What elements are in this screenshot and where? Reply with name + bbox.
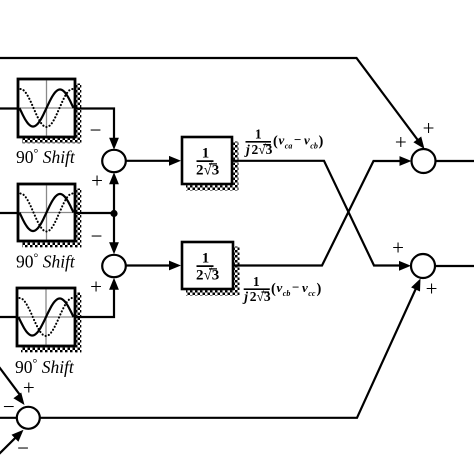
svg-text:+: +	[395, 130, 407, 154]
wire: diagonal input to S5 from upper left	[0, 366, 20, 395]
wire: top feed line into summer S3	[0, 58, 421, 145]
svg-text:): )	[317, 281, 322, 297]
formula label 1/(j2sqrt3)(vca - vcb)	[244, 127, 324, 157]
svg-text:1: 1	[202, 251, 210, 267]
gain block G1 box	[182, 137, 232, 184]
svg-text:v: v	[304, 133, 310, 148]
90-degree shift block 2 box	[18, 184, 75, 241]
svg-text:90° Shift: 90° Shift	[16, 146, 76, 167]
block 1 axes	[46, 81, 48, 136]
svg-text:ca: ca	[285, 142, 293, 151]
summer S2	[102, 255, 126, 277]
wire: S3 output	[436, 160, 474, 162]
block 3 axes	[45, 290, 47, 345]
wire: horizontal input to S5	[0, 417, 17, 419]
svg-text:2√3: 2√3	[196, 268, 219, 284]
wire: input stub to block 2	[0, 212, 19, 214]
svg-text:1: 1	[202, 146, 210, 162]
summer S3	[412, 149, 436, 173]
summer S4	[411, 254, 435, 278]
svg-text:v: v	[279, 133, 285, 148]
svg-text:(: (	[273, 134, 278, 150]
svg-text:90° Shift: 90° Shift	[15, 356, 75, 377]
svg-text:2√3: 2√3	[196, 163, 219, 179]
svg-text:−: −	[294, 132, 301, 147]
svg-text:(: (	[271, 281, 276, 297]
wire: G2 output crossing to summer S3	[233, 161, 404, 266]
gain block G2 box	[182, 242, 233, 289]
svg-text:−: −	[90, 118, 102, 142]
block 3 dotted sine (90-deg shifted)	[20, 298, 73, 336]
90-degree shift block 3 box	[17, 288, 75, 346]
svg-text:−: −	[91, 224, 103, 248]
wire: block3 output to summer S2	[75, 285, 114, 317]
svg-text:+: +	[23, 375, 35, 399]
block 3 solid sine	[19, 299, 74, 336]
svg-text:cb: cb	[283, 289, 291, 298]
90-degree shift block 3 shadow	[76, 293, 81, 353]
90-degree shift block 1 shadow	[76, 84, 81, 144]
svg-text:+: +	[91, 169, 103, 193]
wire: block2 output to junction	[75, 212, 114, 214]
wire: S5 output to summer S4	[40, 286, 418, 418]
wire: block1 output to summer S1	[75, 109, 114, 142]
block 2 dotted sine (90-deg shifted)	[21, 194, 73, 232]
wire: junction up to summer S1	[113, 180, 115, 214]
svg-text:v: v	[302, 280, 308, 295]
svg-text:+: +	[90, 275, 102, 299]
90-degree shift block 2 shadow	[76, 189, 81, 248]
svg-text:): )	[319, 134, 324, 150]
block 2 axes	[46, 186, 48, 240]
gain block G1 shadow	[233, 142, 238, 191]
summer S5	[17, 407, 40, 429]
wire: input stub to block 1	[0, 107, 19, 109]
wire: S1 output to gain G1	[126, 160, 173, 162]
block 1 dotted sine (90-deg shifted)	[21, 89, 73, 127]
svg-text:−: −	[17, 436, 29, 460]
svg-text:1: 1	[255, 127, 262, 142]
svg-text:−: −	[292, 280, 299, 295]
wire: input stub to block 3	[0, 316, 18, 318]
wire: diagonal input to S5 from lower left	[0, 436, 18, 455]
wire: junction down to summer S2	[113, 214, 115, 248]
svg-text:v: v	[277, 280, 283, 295]
junction node dot	[110, 210, 117, 217]
block 1 solid sine	[20, 90, 74, 127]
wire: G1 output crossing to summer S4	[232, 161, 403, 266]
svg-text:+: +	[423, 116, 435, 140]
svg-text:90° Shift: 90° Shift	[16, 251, 76, 272]
wire: S2 output to gain G2	[126, 264, 173, 266]
summer S1	[102, 150, 126, 172]
block 2 solid sine	[20, 194, 74, 231]
svg-text:−: −	[3, 395, 15, 419]
svg-text:cc: cc	[308, 289, 316, 298]
svg-text:+: +	[392, 236, 404, 260]
90-degree shift block 1 box	[18, 79, 75, 137]
svg-text:1: 1	[253, 274, 260, 289]
wire: S4 output	[435, 265, 474, 267]
gain block G2 shadow	[234, 247, 239, 296]
svg-text:cb: cb	[310, 142, 318, 151]
svg-text:+: +	[426, 277, 438, 301]
formula label 1/(j2sqrt3)(vcb - vcc)	[242, 274, 321, 304]
